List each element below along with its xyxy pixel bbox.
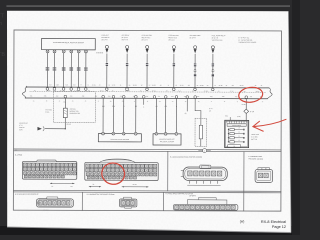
short stub wire pin 144	[143, 98, 145, 104]
svg-text:Page 12: Page 12	[272, 225, 286, 229]
off-page connector symbol at x=195.2	[190, 34, 202, 53]
svg-text:1S: 1S	[160, 85, 162, 87]
PCM bus bottom pins	[64, 95, 67, 98]
PCM bus inner dotted line	[30, 90, 266, 93]
svg-text:4R: 4R	[166, 90, 168, 92]
PCM bus top line with torn left end	[22, 87, 27, 98]
page bottom edge shadow	[7, 227, 291, 233]
continuation bubble on separator	[203, 149, 207, 153]
off-page connector symbol at x=127.2	[122, 34, 130, 53]
PCM connector view B	[85, 159, 158, 181]
svg-text:1B: 1B	[129, 85, 131, 87]
svg-text:2L: 2L	[261, 85, 263, 87]
svg-text:B* : W/ MOTOR DRL: B* : W/ MOTOR DRL	[238, 40, 252, 42]
faint background glyphs left band	[0, 14, 5, 59]
cell divider lines	[167, 151, 169, 191]
wires from bus to MAP sensor	[155, 98, 157, 133]
svg-text:4B 4C: 4B 4C	[47, 90, 51, 92]
red pen ellipse around bus pin	[238, 86, 264, 104]
barometric sensor connector face (B-11)	[119, 197, 137, 208]
svg-text:2K: 2K	[255, 85, 257, 87]
red pen circle on connector B	[100, 161, 127, 187]
off-page connector symbol at x=147.2	[142, 34, 152, 53]
svg-text:2-2: 2-2	[15, 149, 17, 151]
svg-text:4X: 4X	[218, 91, 220, 93]
svg-text:(E-1) 4-B: (E-1) 4-B	[142, 39, 148, 41]
svg-text:2H 2J: 2H 2J	[240, 85, 244, 87]
svg-text:1D: 1D	[175, 85, 177, 87]
splice diamond	[244, 109, 249, 113]
svg-text:2D 2E: 2D 2E	[219, 85, 223, 87]
svg-text:1M 1N: 1M 1N	[133, 85, 137, 87]
svg-text:2F: 2F	[226, 85, 228, 87]
svg-text:G/R: G/R	[165, 106, 168, 108]
svg-text:(E-1) 4-B: (E-1) 4-B	[122, 37, 128, 39]
svg-text:1P: 1P	[141, 85, 143, 87]
svg-text:(E-1) 4-B: (E-1) 4-B	[190, 37, 196, 39]
small connector face (B-3)	[255, 168, 273, 183]
PCM bus bottom line	[25, 97, 267, 100]
svg-text:1F: 1F	[214, 85, 216, 87]
svg-text:JOINT CON: JOINT CON	[251, 134, 259, 136]
svg-text:(E-1) 4-B: (E-1) 4-B	[101, 39, 107, 41]
engine room fuse block	[225, 120, 249, 147]
off-page connector symbol at x=107.0	[101, 34, 109, 53]
svg-text:4m: 4m	[159, 101, 161, 103]
wires from top symbols to PCM bus	[105, 54, 109, 88]
svg-text:1U 1V: 1U 1V	[180, 85, 184, 87]
wires from accelerator sensor to PCM bus	[46, 53, 48, 87]
svg-text:4CT: 4CT	[49, 84, 52, 86]
svg-text:B+2B: B+2B	[242, 104, 246, 106]
svg-text:4.0S: 4.0S	[63, 101, 66, 103]
svg-text:4P 4Q: 4P 4Q	[152, 90, 156, 92]
svg-text:1L: 1L	[120, 85, 122, 87]
svg-text:2C: 2C	[207, 85, 209, 87]
internal resistor	[64, 98, 66, 108]
PCM bus top pins	[46, 88, 49, 91]
feet under B-2 connector	[187, 181, 220, 185]
top toolbar divider line	[6, 5, 290, 7]
svg-text:4H 4J: 4H 4J	[100, 90, 104, 92]
svg-text:RX-8 Electrical: RX-8 Electrical	[261, 220, 286, 224]
svg-text:W/B 2M: W/B 2M	[19, 127, 25, 129]
svg-text:PRESSURE SENSOR: PRESSURE SENSOR	[249, 158, 263, 160]
svg-text:B: B	[176, 106, 177, 108]
darker bottom band	[0, 226, 300, 235]
dashed PCM internal box 2 with resistor	[194, 99, 196, 111]
svg-text:MODULE S/B: MODULE S/B	[70, 111, 79, 113]
PCM connector view A	[22, 160, 76, 179]
svg-text:1E: 1E	[197, 85, 199, 87]
mass air flow connector face (B-10)	[36, 197, 73, 207]
svg-text:1Q 1R: 1Q 1R	[152, 85, 156, 87]
svg-text:4V: 4V	[87, 84, 89, 86]
svg-text:B-1 PCM: B-1 PCM	[15, 155, 22, 157]
accelerator pedal connector face (B-2)	[181, 165, 227, 181]
dashed PCM internal box left	[53, 92, 95, 123]
svg-text:VENT/FILM 4-B: VENT/FILM 4-B	[212, 40, 223, 42]
dashed link right of sensor box	[96, 52, 102, 54]
svg-text:5B 5C: 5B 5C	[256, 91, 260, 93]
svg-text:(E-3): (E-3)	[19, 125, 23, 127]
svg-text:4T: 4T	[80, 84, 82, 86]
wires from bus to mass air flow sensor	[102, 98, 104, 133]
svg-text:(E-2): (E-2)	[209, 108, 213, 110]
accelerator pedal position sensor box	[42, 38, 96, 49]
svg-text:1J 1K: 1J 1K	[112, 85, 116, 87]
svg-text:4CN: 4CN	[65, 84, 68, 86]
PCM bus torn right end	[267, 88, 272, 99]
accelerator sensor terminals T1-T6	[46, 50, 49, 53]
svg-text:GND: GND	[225, 115, 228, 117]
stub wire pin 187.5 with off-sheet label	[186, 99, 188, 112]
wire from circled bus pin down to fuse block	[245, 99, 247, 109]
svg-text:4S 4T: 4S 4T	[178, 90, 182, 92]
dimension arrows under connector B	[89, 186, 148, 188]
mass air flow sensor box	[98, 134, 141, 142]
off-page connector symbol at x=213.0	[211, 34, 225, 53]
svg-text:(E-1) 4-B: (E-1) 4-B	[212, 37, 218, 39]
svg-text:4U: 4U	[192, 91, 194, 93]
svg-text:2: 2	[204, 150, 205, 152]
svg-text:(E/R): (E/R)	[19, 129, 23, 131]
svg-text:(w): (w)	[240, 219, 245, 223]
svg-text:TB: TB	[0, 52, 5, 58]
svg-text:C C C C: C C C C	[43, 209, 48, 211]
svg-text:4N: 4N	[140, 90, 142, 92]
svg-text:PRESSURE SENSOR: PRESSURE SENSOR	[160, 141, 174, 143]
svg-text:B/R: B/R	[135, 106, 137, 108]
svg-text:(E-1) 4-B: (E-1) 4-B	[168, 39, 174, 41]
svg-text:4R 4U: 4R 4U	[92, 84, 96, 86]
svg-text:4K: 4K	[112, 90, 114, 92]
idle speed control connector face (B-14)	[173, 197, 238, 210]
diagram outer frame	[13, 30, 281, 211]
svg-text:JB: JB	[233, 146, 235, 148]
manifold absolute pressure sensor box	[153, 134, 181, 145]
svg-text:CPU SIDE: CPU SIDE	[45, 109, 52, 111]
svg-text:1C: 1C	[149, 85, 151, 87]
darker right band	[292, 0, 300, 235]
svg-text:(E-2) B/W: (E-2) B/W	[251, 136, 258, 138]
svg-text:B: B	[143, 106, 144, 108]
svg-text:4P: 4P	[209, 110, 211, 112]
row divider double line	[13, 189, 280, 192]
dimension arrows under connector A	[50, 183, 74, 184]
svg-text:2G: 2G	[232, 85, 234, 87]
svg-text:4CO: 4CO	[73, 84, 76, 86]
svg-text:4Y 4Z: 4Y 4Z	[230, 91, 234, 93]
svg-text:1T: 1T	[168, 85, 170, 87]
main relay feed wire and inline connector	[45, 128, 65, 130]
off-page connector symbol at x=174.0	[168, 34, 178, 53]
red pen arrow pointing to fuse block	[253, 119, 286, 126]
section separator double line	[14, 148, 281, 151]
svg-text:TT: TT	[0, 14, 5, 20]
svg-text:(E/R): (E/R)	[237, 116, 241, 118]
svg-text:FUSE BLOCK: FUSE BLOCK	[232, 125, 241, 127]
svg-text:4V: 4V	[99, 84, 101, 86]
svg-text:W/L (F): W/L (F)	[66, 124, 71, 126]
